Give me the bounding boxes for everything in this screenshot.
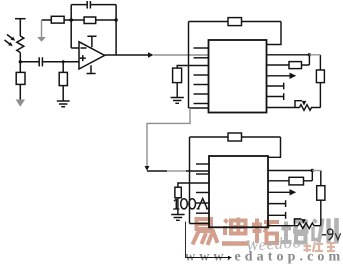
svg-text:www.edatop.com: www.edatop.com xyxy=(185,250,343,265)
